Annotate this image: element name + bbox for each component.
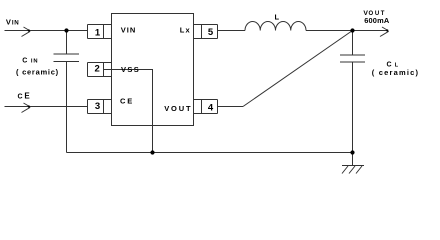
capacitor CL xyxy=(340,55,365,62)
pin 4 box xyxy=(194,100,218,114)
wire CL top lead xyxy=(352,31,354,56)
svg-text:VOUT: VOUT xyxy=(164,104,192,113)
node D (rail / ground junction) xyxy=(350,150,354,154)
wire VOUT diagonal (pin 4 to output node) xyxy=(243,31,353,107)
svg-text:( ceramic): ( ceramic) xyxy=(372,68,419,77)
svg-text:1: 1 xyxy=(95,28,101,39)
capacitor CIN xyxy=(54,54,80,62)
svg-text:600mA: 600mA xyxy=(364,16,390,25)
svg-text:Lx: Lx xyxy=(180,26,191,35)
wire CIN bottom lead xyxy=(66,62,68,153)
svg-text:L: L xyxy=(275,13,280,22)
svg-text:3: 3 xyxy=(95,101,100,112)
arrow tip dot VIN xyxy=(28,29,30,31)
svg-text:4: 4 xyxy=(208,102,214,113)
svg-text:VIN: VIN xyxy=(121,26,137,35)
op-amp U1 body (DC/DC converter IC) xyxy=(112,14,194,126)
arrow CE input xyxy=(22,103,31,113)
wire L to output node xyxy=(306,30,353,32)
svg-text:CE: CE xyxy=(120,97,134,106)
wire output to arrow xyxy=(353,30,389,32)
ground xyxy=(342,153,364,174)
arrow VOUT output xyxy=(380,27,389,37)
svg-text:( ceramic): ( ceramic) xyxy=(16,67,59,76)
svg-text:CIN: CIN xyxy=(22,57,38,64)
wire Lx output (pin 5 to inductor) xyxy=(218,30,246,32)
pin 5 box xyxy=(194,25,218,39)
inductor L xyxy=(245,21,306,30)
wire ground rail xyxy=(67,152,353,154)
svg-text:VSS: VSS xyxy=(121,65,140,74)
wire VSS trace (pin 2 to ground rail) xyxy=(104,70,153,153)
wire VIN input xyxy=(5,30,89,32)
node A (VIN / CIN junction) xyxy=(64,28,68,32)
arrow tip dot CE xyxy=(28,105,30,107)
svg-text:2: 2 xyxy=(95,64,100,75)
node B (output node) xyxy=(350,28,354,32)
node C (VSS / rail junction) xyxy=(150,150,154,154)
wire CL bottom lead xyxy=(352,62,354,153)
svg-text:VIN: VIN xyxy=(6,17,20,26)
wire CIN top lead xyxy=(66,31,68,55)
arrow VIN input xyxy=(22,27,31,37)
svg-text:5: 5 xyxy=(208,27,214,38)
arrow tip dot VOUT xyxy=(386,29,388,31)
wire pin 4 stub xyxy=(218,106,244,108)
pin 1 box xyxy=(88,25,112,39)
pin 3 box xyxy=(88,100,112,114)
wire CE input xyxy=(5,106,89,108)
pin 2 box xyxy=(88,63,112,77)
svg-text:CE: CE xyxy=(18,92,31,101)
